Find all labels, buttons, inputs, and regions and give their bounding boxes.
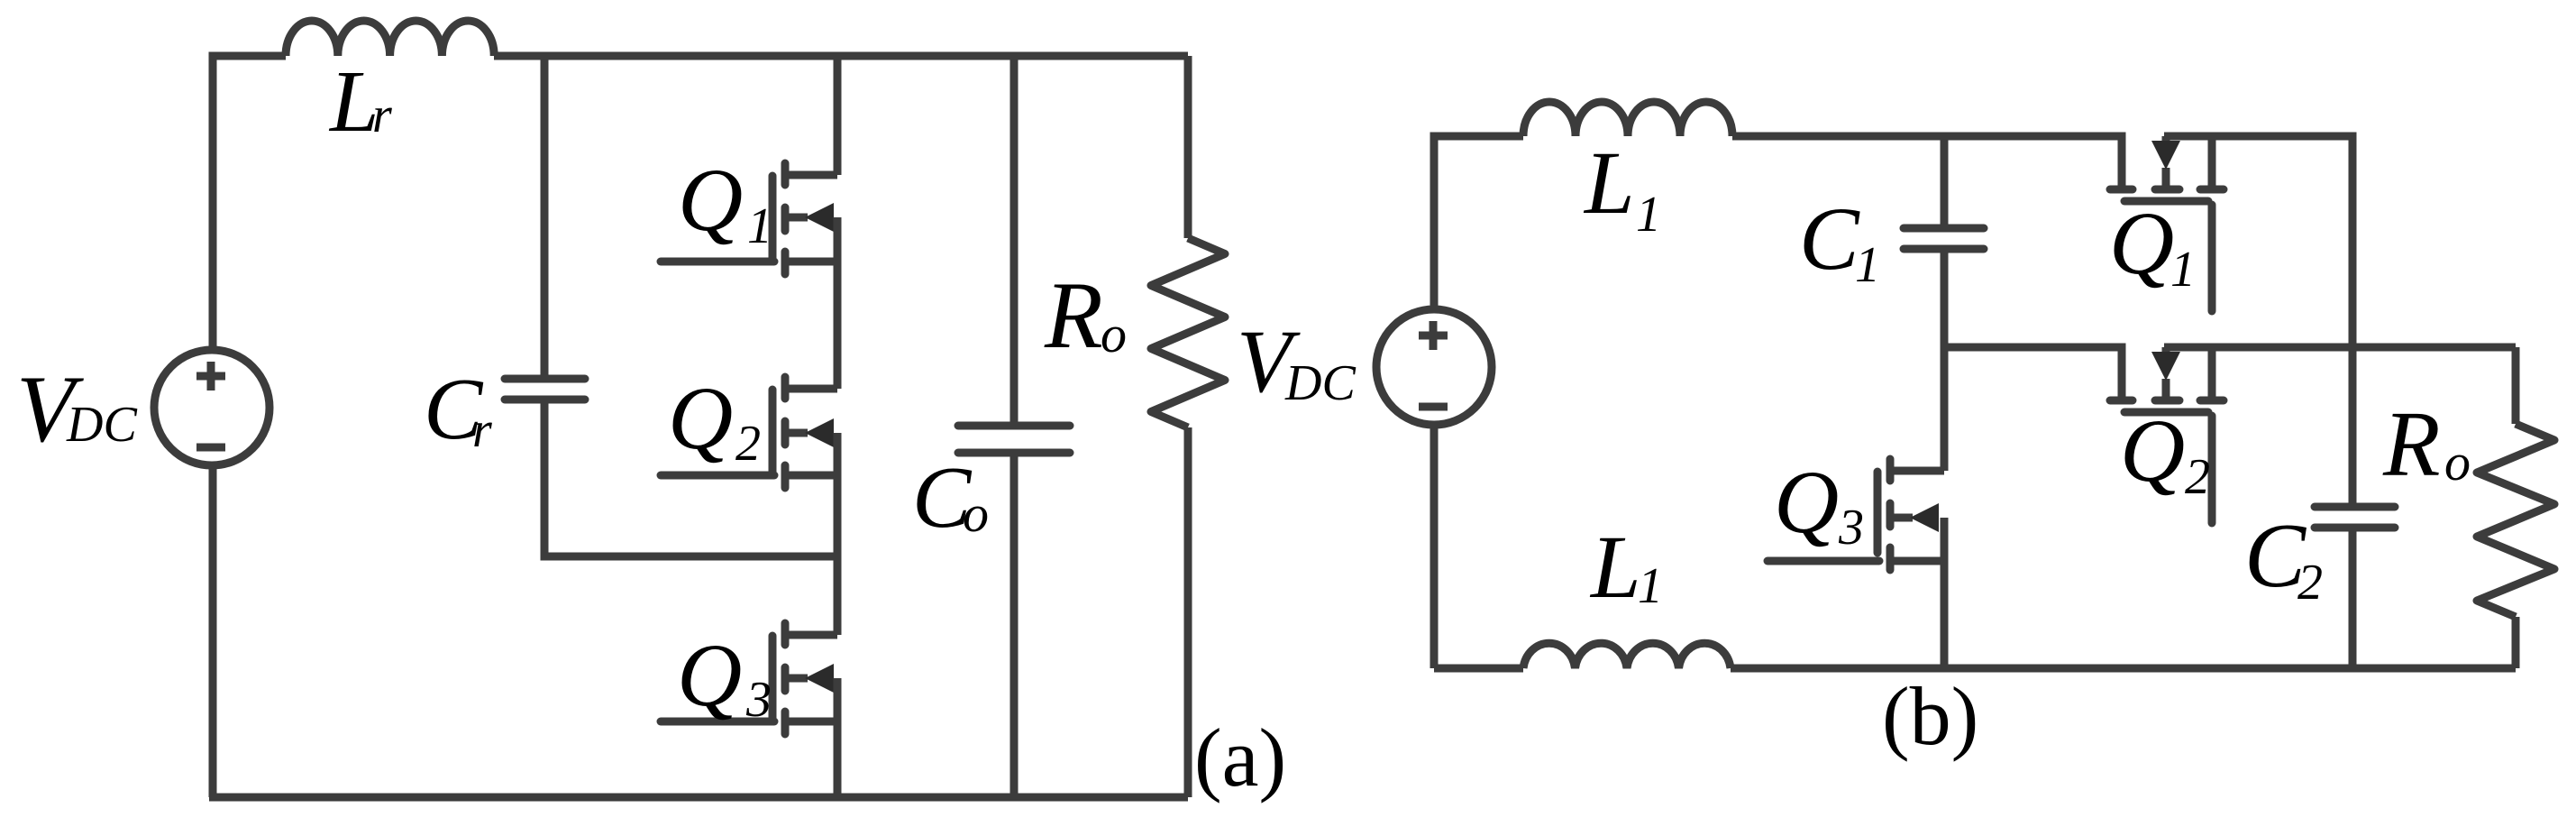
transistor Q3 (a) : body arrow: [805, 664, 834, 693]
svg-text:R: R: [1044, 262, 1103, 368]
resistor Ro (a): [1151, 238, 1225, 427]
wire: (b) top rail from inductor to Q1 drain corner: [1732, 136, 2122, 189]
wire: bus Q2 body/source to Q3 drain: [834, 433, 842, 635]
transistor Q2 (a) : body lead: [785, 429, 808, 437]
transistor Q2 (a) : channel dashes: [781, 377, 790, 488]
svg-text:2: 2: [2185, 449, 2210, 505]
svg-text:3: 3: [1838, 500, 1864, 556]
wire: (b) left branch upper (source top to inductor): [1434, 136, 1523, 310]
transistor Q1 (a) : channel dashes: [781, 163, 790, 274]
transistor Q2 (b) : body arrow: [2151, 352, 2180, 381]
svg-text:DC: DC: [66, 397, 137, 453]
wire: Co branch upper: [1010, 56, 1019, 427]
svg-text:1: 1: [2170, 242, 2196, 298]
transistor Q2 (a) : gate lead: [661, 472, 774, 480]
transistor Q1 (b) : gate lead: [2208, 205, 2216, 311]
transistor Q2 (b) : gate lead: [2208, 416, 2216, 523]
svg-text:DC: DC: [1284, 355, 1356, 411]
label Q1 (a): [678, 150, 772, 254]
wire: Cr branch from top rail: [541, 56, 549, 380]
voltage source VDC (a): [154, 350, 269, 465]
label Q1 (b): [2109, 193, 2196, 298]
transistor Q3 (a) : body lead: [785, 675, 808, 683]
svg-text:2: 2: [735, 416, 761, 472]
label (b): [1882, 670, 1978, 762]
transistor Q3 (a) : gate lead: [661, 718, 774, 726]
capacitor Co: [958, 426, 1070, 453]
transistor Q3 (a) : channel dashes: [781, 623, 790, 734]
svg-text:R: R: [2382, 392, 2441, 496]
wire: Cr bottom to MOSFET bus junction: [544, 400, 837, 556]
wire: Ro (b) branch lower: [2512, 617, 2520, 668]
wire: middle row left segment (C1 junction to Q2 drain corner): [1944, 347, 2122, 400]
wire: bus Q3 body/source to bottom rail: [834, 678, 842, 797]
capacitor C2: [2315, 507, 2395, 528]
svg-text:Q: Q: [2109, 193, 2174, 293]
transistor Q1 (a) : body lead: [785, 214, 808, 222]
transistor Q3 (b) : gate lead: [1768, 557, 1879, 565]
svg-text:o: o: [1101, 305, 1127, 363]
wire: (a) left branch upper (source top to inductor): [213, 56, 286, 351]
transistor Q2 (b) : channel dashes: [2110, 397, 2224, 405]
transistor Q3 (a) : source lead: [785, 718, 837, 726]
wire: (a) top rail from inductor to Ro branch: [494, 52, 1188, 60]
label Q3 (a): [677, 625, 772, 728]
transistor Q2 (b) : gate bar: [2124, 409, 2208, 417]
svg-text:o: o: [963, 484, 989, 543]
svg-text:Q: Q: [1774, 452, 1839, 552]
inductor L1 top: [1523, 102, 1732, 136]
wire: (b) left branch lower: [1430, 425, 1439, 668]
transistor Q3 (b) : drain lead: [1890, 467, 1944, 475]
transistor Q3 (a) : drain lead: [785, 631, 837, 639]
label (a): [1194, 712, 1286, 804]
label Q2 (a): [668, 368, 761, 472]
wire: middle row right segment (Q2 output to Ro corner): [2164, 344, 2516, 352]
label L1 bottom: [1589, 517, 1663, 617]
label Lr: [328, 53, 392, 151]
transistor Q1 (a) : body arrow: [805, 203, 834, 232]
transistor Q3 (b) : body lead: [1890, 514, 1913, 522]
label C1: [1799, 188, 1880, 293]
svg-text:r: r: [472, 402, 492, 458]
svg-text:1: 1: [1636, 187, 1661, 243]
wire: Ro branch lower: [1184, 427, 1192, 797]
wire: Q3 (b) body/source down to bottom rail: [1941, 518, 1949, 668]
label C2: [2244, 505, 2323, 611]
label Q2 (b): [2120, 400, 2210, 505]
svg-text:Q: Q: [2120, 400, 2185, 501]
svg-text:r: r: [372, 87, 392, 143]
svg-text:1: 1: [747, 198, 772, 254]
svg-text:L: L: [1589, 517, 1641, 617]
transistor Q2 (b) : right channel connection: [2208, 347, 2216, 400]
capacitor C1: [1904, 228, 1984, 249]
transistor Q3 (b) : body arrow: [1910, 503, 1939, 532]
wire: (b) bottom rail left segment: [1434, 665, 1523, 673]
voltage source VDC (b): [1376, 309, 1492, 425]
transistor Q1 (b) : gate bar: [2124, 198, 2208, 206]
transistor Q1 (a) : gate bar: [769, 176, 777, 258]
svg-text:o: o: [2444, 433, 2471, 491]
wire: C1 bottom through middle row to Q3 drain: [1941, 250, 1949, 471]
transistor Q3 (b) : source lead: [1890, 557, 1944, 565]
transistor Q1 (b) : channel dashes: [2110, 186, 2224, 194]
transistor Q2 (a) : drain lead: [785, 385, 837, 393]
label L1 top: [1583, 133, 1661, 243]
node A: top rail to Q1 drain: [834, 56, 842, 175]
wire: (a) bottom rail: [209, 794, 1188, 802]
label Q3 (b): [1774, 452, 1864, 556]
wire: bus Q1 body/source to Q2 drain: [834, 217, 842, 389]
transistor Q2 (a) : body arrow: [805, 418, 834, 447]
capacitor Cr: [505, 379, 585, 400]
svg-text:1: 1: [1855, 237, 1880, 293]
label Ro (b): [2382, 392, 2471, 496]
svg-text:C: C: [1799, 188, 1860, 289]
transistor Q3 (b) : gate bar: [1874, 472, 1882, 553]
transistor Q1 (a) : gate lead: [661, 258, 774, 266]
svg-text:L: L: [1583, 133, 1635, 233]
label Cr: [424, 361, 492, 458]
wire: C1 branch from top rail: [1941, 136, 1949, 229]
transistor Q1 (b) : body arrow: [2151, 141, 2180, 170]
svg-text:Q: Q: [668, 368, 733, 468]
inductor Lr: [286, 21, 494, 56]
svg-text:Q: Q: [678, 150, 743, 250]
wire: (b) bottom rail right segment: [1731, 665, 2516, 673]
transistor Q2 (a) : gate bar: [769, 390, 777, 472]
label VDC (b): [1237, 311, 1356, 411]
wire: C2 bottom to bottom rail: [2349, 528, 2357, 668]
svg-text:1: 1: [1638, 558, 1663, 614]
wire: (a) left branch lower (source bottom to bottom rail): [209, 465, 217, 797]
svg-text:(b): (b): [1882, 670, 1978, 762]
resistor Ro (b): [2477, 424, 2554, 617]
wire: Ro branch upper: [1184, 56, 1192, 238]
wire: Co branch lower: [1010, 454, 1019, 797]
svg-text:(a): (a): [1194, 712, 1286, 804]
transistor Q3 (a) : gate bar: [769, 636, 777, 718]
svg-text:3: 3: [745, 672, 772, 728]
transistor Q1 (b) : body lead: [2162, 136, 2170, 189]
wire: Q1 (b) output to right branch down through row: [2164, 136, 2352, 507]
label Co: [912, 449, 989, 547]
wire: Ro (b) branch upper: [2512, 347, 2520, 424]
label Ro (a): [1044, 262, 1127, 368]
transistor Q1 (a) : drain lead: [785, 171, 837, 179]
svg-text:Q: Q: [677, 625, 742, 725]
svg-text:2: 2: [2297, 555, 2323, 611]
transistor Q2 (a) : source lead: [785, 472, 837, 480]
transistor Q3 (b) : channel dashes: [1886, 459, 1895, 570]
transistor Q1 (a) : source lead: [785, 258, 837, 266]
label VDC (a): [16, 356, 137, 462]
transistor Q2 (b) : body lead: [2162, 347, 2170, 400]
transistor Q1 (b) : right channel connection: [2208, 136, 2216, 189]
inductor L1 bottom: [1523, 643, 1731, 668]
